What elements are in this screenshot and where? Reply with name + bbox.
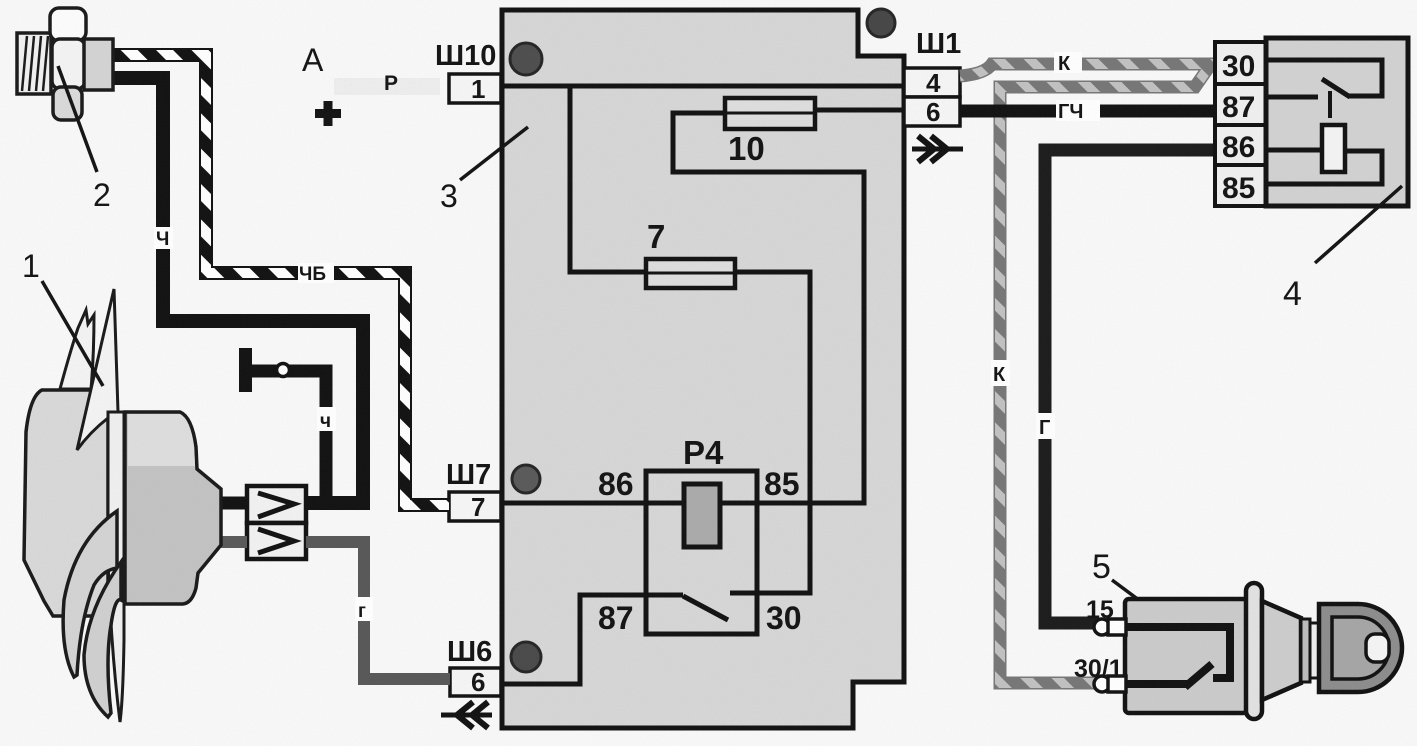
motor body highlight (128, 414, 195, 466)
fan small upper blade (60, 310, 94, 389)
wire ГЧ (black) Ш1-6 to relay pin 87 (960, 105, 1215, 118)
fuse 7 (646, 259, 735, 288)
wire: Ш7-7 to relay P4 coil pin 86 (449, 501, 684, 506)
ignition switch cone (1262, 601, 1301, 700)
arrow in (from harness) at Ш6 (441, 702, 492, 728)
wire label Г (1036, 413, 1055, 439)
relay 4 contact 87 line (1266, 95, 1318, 100)
relay 4 contact 30 line (1266, 60, 1382, 96)
wire: Ш6-6 up to relay P4 pin 87 (450, 595, 683, 684)
wire label К horizontal (1054, 52, 1082, 75)
key (1319, 604, 1402, 692)
relay 4 body (1266, 38, 1408, 206)
ignition internal contact 30/1 line (1126, 680, 1187, 688)
wire: fuse 10 output to Ш1-6 (815, 108, 904, 113)
motor 1 body (125, 412, 221, 604)
fan leader line 1 (22, 248, 103, 386)
sensor 2 collar (84, 39, 113, 90)
wire: fuse 7 output right then down to relay P4 pin 30 (730, 272, 810, 593)
wire К (grey striped) Ш1-4 to relay pin 30 and down to ignition 30/1 (960, 64, 1211, 683)
wire label К vertical (991, 360, 1010, 386)
relay 4 coil wire 86 (1266, 148, 1322, 153)
wire г (grey) motor to Ш6-6 (306, 542, 450, 679)
relay leader line 4 (1283, 186, 1402, 313)
fan tall blade lower part (108, 412, 124, 722)
wire: tap down to fuse 7 (570, 86, 646, 272)
fuse 10 (725, 98, 815, 129)
block leader line 3 (440, 127, 528, 214)
connector Ш1 pin 4 (904, 68, 960, 98)
relay 4 pin 86 box (1215, 125, 1266, 165)
ignition terminal 30/1 (1094, 676, 1126, 692)
wire ЧБ (black/white striped) sensor to Ш7-7 (112, 55, 449, 505)
mounting hole top-right (in notch) (867, 9, 895, 37)
wire: main feed from connector Ш10-1 across block to Ш1-4 (449, 84, 904, 89)
relay 4 pin 30 box (1215, 42, 1266, 84)
wire: fuse 10 input loop down to relay P4 pin 85 (673, 113, 864, 503)
wire label ЧБ (298, 263, 334, 285)
relay 4 coil (1322, 125, 1345, 172)
relay P4 contact arm (683, 596, 728, 620)
motor stub wire upper (black) (216, 497, 247, 510)
ignition switch leader 5 (1092, 548, 1155, 612)
erased smudge near Ш10 (334, 78, 440, 95)
motor bullet connector upper (247, 486, 306, 523)
ignition terminal 15 (1094, 619, 1126, 635)
connector Ш1 pin 6 (904, 97, 960, 127)
fan hub (24, 390, 108, 616)
relay 4 contact arm (1322, 79, 1350, 97)
fuse/relay block 3 body (502, 10, 904, 728)
connector Ш7 pin 7 (449, 492, 501, 522)
tee branch wire ч with terminal (245, 348, 326, 499)
wire label г (355, 597, 373, 622)
sensor 2 hex nut (50, 8, 86, 120)
plus symbol (315, 101, 341, 126)
connector Ш6 pin 6 (450, 667, 501, 697)
mounting hole mid-left (512, 465, 540, 493)
arrow out (to harness) at Ш1 (912, 136, 963, 162)
fan crescent blade rear (84, 562, 121, 717)
mounting hole bottom-left (511, 642, 541, 672)
relay P4 coil (684, 484, 720, 547)
motor bullet connector lower (247, 523, 306, 559)
sensor 2 thread (17, 33, 51, 94)
ignition internal contact arm (1185, 664, 1212, 687)
connector Ш10 pin 1 (449, 74, 501, 104)
wire label ч (317, 407, 336, 432)
relay P4 outline (646, 471, 757, 634)
motor stub wire lower (grey) (216, 536, 247, 548)
relay 4 pin 85 box (1215, 165, 1266, 206)
wire label Ч (154, 227, 173, 250)
ignition internal contact 15 line (1126, 627, 1230, 678)
relay 4 coil wire 85 (1266, 151, 1382, 184)
wire Г (black) relay pin 86 down to ignition 15 (1045, 150, 1215, 623)
sensor leader line 2 (58, 66, 111, 213)
wire label ГЧ (1056, 100, 1100, 123)
ignition switch neck rings (1301, 619, 1319, 682)
fan tall blade top (77, 289, 118, 450)
wire Ч (black) sensor to motor junction (112, 78, 363, 503)
fan crescent blade front (63, 511, 117, 677)
ignition switch 5 body (1125, 599, 1247, 713)
ignition switch flange (1246, 583, 1262, 719)
relay 4 pin 87 box (1215, 84, 1266, 125)
relay 4 actuating link (1328, 91, 1332, 118)
mounting hole top-left (510, 43, 542, 75)
